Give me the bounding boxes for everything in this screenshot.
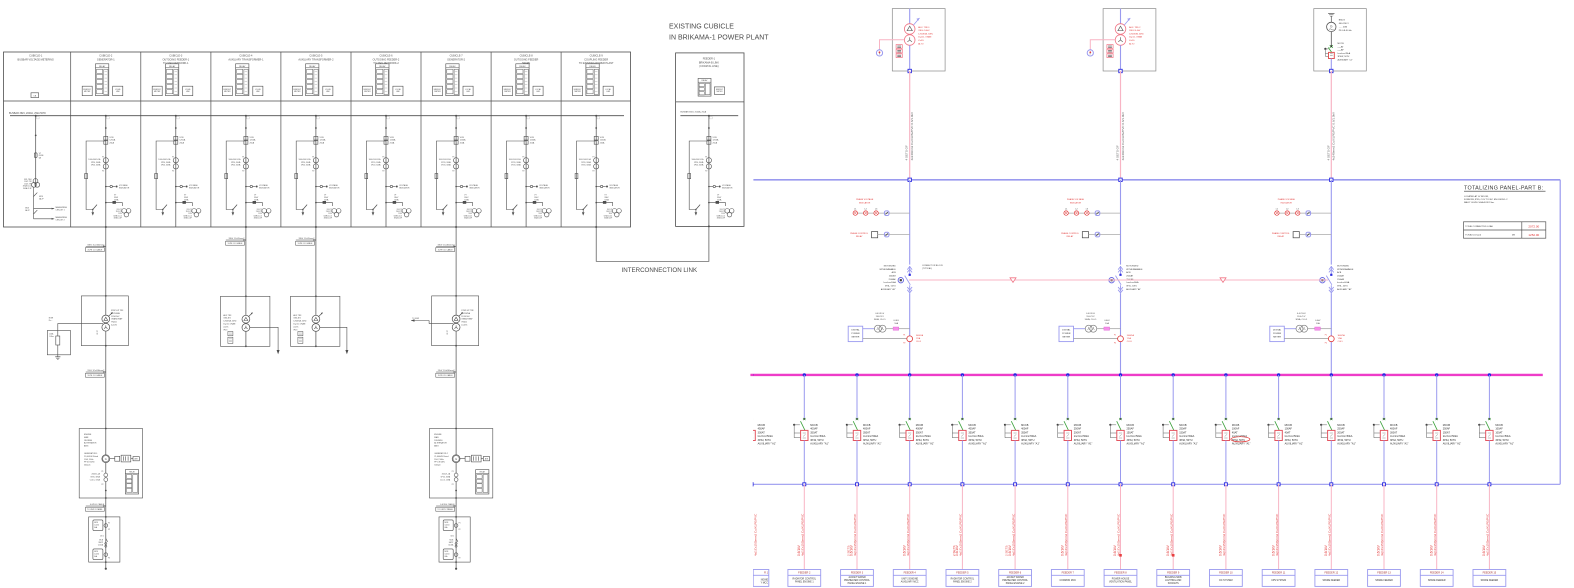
- svg-text:XLPE CU CABLE: XLPE CU CABLE: [228, 242, 244, 245]
- svg-text:1000-500/1-1A: 1000-500/1-1A: [579, 158, 592, 161]
- svg-text:3P3d, 50TU: 3P3d, 50TU: [863, 439, 877, 442]
- svg-text:11kV, 50Hz: 11kV, 50Hz: [434, 459, 444, 461]
- svg-text:TO UNIT-1 PANEL: TO UNIT-1 PANEL: [87, 508, 103, 511]
- svg-text:CIRCUIT 2: CIRCUIT 2: [56, 220, 65, 222]
- svg-text:500rpm: 500rpm: [434, 464, 441, 467]
- svg-text:500rpm: 500rpm: [84, 464, 91, 467]
- feeder outgoing cable feeder 13: [1383, 484, 1385, 569]
- node square on rail feeder 7: [1066, 483, 1069, 486]
- feeder MCCB aux contact feeder 8: [1109, 424, 1111, 426]
- svg-text:0.4/√3 kV: 0.4/√3 kV: [1086, 312, 1095, 315]
- svg-text:HMI: HMI: [116, 91, 120, 93]
- svg-text:150AT: 150AT: [1179, 431, 1187, 434]
- svg-text:VCB: VCB: [109, 137, 114, 139]
- svg-text:Z=10%: Z=10%: [111, 325, 117, 327]
- svg-text:20/1.73: 20/1.73: [186, 209, 191, 211]
- CT upper U2: [454, 524, 458, 528]
- generator box G1: [79, 429, 142, 499]
- svg-text:TOTAL Demand: TOTAL Demand: [1465, 233, 1481, 236]
- svg-text:5P20, 30VA: 5P20, 30VA: [161, 161, 171, 164]
- bus drop wire mid incomer 1: [909, 293, 911, 375]
- svg-text:4x(1Cx150)mm2 Cu/XLPE/PVC: 4x(1Cx150)mm2 Cu/XLPE/PVC: [1433, 513, 1437, 556]
- transformer wye circle AUX. TRF-2: [1115, 35, 1126, 46]
- MCB sub box upper U2: [443, 520, 453, 531]
- ACB switch blade incomer 2: [1119, 274, 1121, 276]
- svg-text:PHASE VOLTAGE: PHASE VOLTAGE: [1278, 198, 1296, 201]
- svg-text:ENGINE: ENGINE: [84, 434, 92, 436]
- svg-text:PANEL ENGINE 2: PANEL ENGINE 2: [1006, 582, 1025, 585]
- node square below BSDG: [1330, 69, 1333, 72]
- svg-text:5P20, 30VA: 5P20, 30VA: [371, 164, 381, 167]
- svg-text:4 SETS OF: 4 SETS OF: [1326, 145, 1330, 161]
- svg-text:110/1.73: 110/1.73: [326, 211, 332, 213]
- feeder MCCB aux contact feeder 4: [899, 424, 901, 426]
- transformer tap arrow: [459, 312, 463, 316]
- svg-text:PHASE CONTROL: PHASE CONTROL: [1061, 232, 1080, 235]
- cubicle divider line 6: [420, 52, 422, 227]
- svg-text:FEEDER 5: FEEDER 5: [956, 572, 969, 575]
- svg-text:PF:0.8-50 Hz: PF:0.8-50 Hz: [1339, 30, 1352, 32]
- svg-text:3P4L, 50TU: 3P4L, 50TU: [1126, 286, 1137, 288]
- bus tap label Brikama feeder: [710, 117, 713, 119]
- svg-text:POWER: POWER: [851, 333, 860, 335]
- svg-text:110/1.73: 110/1.73: [396, 211, 402, 213]
- svg-text:MCCB: MCCB: [1495, 424, 1503, 427]
- 400V main busbar: [753, 179, 1560, 181]
- standby diesel generator box BSDG: [1314, 9, 1367, 71]
- svg-text:Icu=Ics=50kA: Icu=Ics=50kA: [1443, 435, 1458, 438]
- svg-text:3P3d, 50TU: 3P3d, 50TU: [1443, 439, 1457, 442]
- energy meter box cubicle 6: [362, 86, 372, 96]
- svg-text:110/1.73: 110/1.73: [116, 211, 122, 213]
- svg-text:SPARE FEEDER: SPARE FEEDER: [1481, 579, 1499, 582]
- node square on rail feeder 15: [1488, 483, 1491, 486]
- feeder MCCB feeder 4: [908, 418, 911, 420]
- feeder MCCB red box feeder 7: [1064, 430, 1071, 440]
- svg-text:20/25MVA: 20/25MVA: [111, 312, 120, 315]
- svg-text:INDICATOR: INDICATOR: [329, 187, 340, 190]
- meter CT circle incomer 2: [1118, 336, 1124, 342]
- svg-text:ONAN/ONAF: ONAN/ONAF: [111, 318, 123, 321]
- svg-text:MEASURING: MEASURING: [56, 216, 68, 219]
- generator CT G2: [455, 463, 457, 474]
- svg-text:HMI: HMI: [186, 91, 190, 93]
- feeder outgoing cable feeder 8: [1120, 484, 1122, 569]
- local HMI box cubicle 8: [533, 86, 543, 96]
- svg-text:Z=10%: Z=10%: [461, 325, 467, 327]
- svg-text:3000/5A: 3000/5A: [916, 334, 924, 337]
- svg-text:ALTERNATOR: ALTERNATOR: [84, 442, 97, 445]
- feeder wire to bottom rail feeder 14: [1436, 441, 1438, 485]
- ACB switch blade incomer 3: [1330, 274, 1332, 276]
- ACB motor circle M incomer 1: [898, 278, 903, 283]
- svg-text:1250KVA, 50Hz: 1250KVA, 50Hz: [1129, 32, 1144, 35]
- svg-text:VCB: VCB: [390, 137, 395, 139]
- wire stub below unit box U2: [455, 562, 457, 569]
- transformer winding wye circle: [242, 324, 250, 332]
- feeder label box feeder 13: [1368, 570, 1401, 587]
- svg-text:P2: P2: [452, 171, 454, 173]
- feeder outgoing cable feeder 7: [1067, 484, 1069, 569]
- svg-text:350AT: 350AT: [1021, 431, 1029, 434]
- aux transformer accessory rects AUX TRF-1: [228, 332, 233, 336]
- svg-text:INDICATOR: INDICATOR: [609, 187, 620, 190]
- svg-text:...... kVA: ...... kVA: [1339, 26, 1348, 29]
- svg-text:METER: METER: [224, 91, 231, 93]
- svg-text:5P20, 30VA: 5P20, 30VA: [441, 164, 451, 167]
- svg-text:VENTILATION PANEL: VENTILATION PANEL: [1109, 580, 1133, 583]
- svg-text:Icu=Ics=50kA: Icu=Ics=50kA: [1127, 435, 1142, 438]
- relay panel RELAY box cubicle 4: [236, 64, 249, 96]
- svg-text:5P20, 30VA: 5P20, 30VA: [511, 164, 521, 167]
- local HMI box cubicle 2: [113, 86, 123, 96]
- feeder MCCB feeder 15: [1488, 418, 1491, 420]
- transformer tap arrow: [319, 313, 323, 317]
- feeder drop wire from magenta bus feeder 9: [1172, 373, 1175, 376]
- ACB switch blade incomer 1: [909, 274, 911, 276]
- svg-text:33/0.4kV: 33/0.4kV: [223, 318, 231, 320]
- svg-text:Icu=Ics=50kA: Icu=Ics=50kA: [1495, 435, 1510, 438]
- feeder MCCB red box feeder 2: [801, 430, 808, 440]
- svg-text:350AT: 350AT: [916, 431, 924, 434]
- svg-text:AUXILIARY "A1": AUXILIARY "A1": [863, 443, 882, 446]
- svg-text:20/1.73: 20/1.73: [607, 209, 612, 211]
- svg-text:MCCB: MCCB: [968, 424, 976, 427]
- circuit breaker VCB cubicle 5: [314, 136, 318, 140]
- svg-text:FEEDER 6: FEEDER 6: [1009, 572, 1022, 575]
- energy meter box cubicle 7: [433, 86, 443, 96]
- 400V LV distribution busbar magenta: [750, 374, 1542, 376]
- earthing switch branch cubicle 4: [226, 141, 246, 210]
- svg-text:20/25MVA: 20/25MVA: [461, 312, 470, 315]
- meter CT wire incomer 3: [1284, 338, 1328, 340]
- svg-text:SOCKETS: SOCKETS: [1168, 583, 1179, 585]
- svg-text:FEEDER-1: FEEDER-1: [703, 58, 716, 61]
- svg-text:5P20, 30VA: 5P20, 30VA: [231, 164, 241, 167]
- svg-text:AUXILIARY "A1": AUXILIARY "A1": [1390, 443, 1409, 446]
- feeder MCCB feeder 12: [1330, 418, 1333, 420]
- svg-text:FEEDER 15: FEEDER 15: [1483, 572, 1497, 575]
- local HMI box cubicle 9: [603, 86, 613, 96]
- earthing switch branch Brikama feeder: [689, 141, 709, 210]
- svg-text:INDICATOR: INDICATOR: [259, 187, 270, 190]
- svg-text:MCCB: MCCB: [916, 424, 924, 427]
- svg-text:33kV /0.4kV: 33kV /0.4kV: [1129, 30, 1141, 32]
- bus tap label cubicle 9: [597, 117, 600, 119]
- ground symbol NGR-1: [57, 355, 59, 357]
- svg-text:RELAY: RELAY: [169, 65, 176, 68]
- svg-text:250AF: 250AF: [1127, 428, 1135, 431]
- svg-text:4x(1Cx150)mm2 Cu/XLPE/PVC: 4x(1Cx150)mm2 Cu/XLPE/PVC: [1011, 513, 1015, 556]
- svg-text:R=...: R=...: [49, 320, 53, 322]
- svg-text:1250KVA, 50Hz: 1250KVA, 50Hz: [918, 32, 933, 35]
- feeder MCCB feeder 5: [961, 418, 964, 420]
- feeder MCCB red box feeder 6: [1011, 430, 1018, 440]
- cubicle divider line 3: [210, 52, 212, 227]
- svg-text:METER: METER: [434, 91, 441, 93]
- feeder MCCB aux contact feeder 11: [1267, 424, 1269, 426]
- svg-text:Icu=Ics=50kA: Icu=Ics=50kA: [968, 435, 983, 438]
- node square on rail feeder 1: [750, 483, 753, 486]
- bus drop wire mid incomer 3: [1330, 293, 1332, 375]
- transformer winding delta circle: [242, 315, 250, 323]
- svg-text:FEEDER 7: FEEDER 7: [1062, 572, 1075, 575]
- svg-text:DIGITAL: DIGITAL: [1062, 328, 1071, 331]
- svg-text:BUSBAR 36kV, 2000A, 25kA 50Hz: BUSBAR 36kV, 2000A, 25kA 50Hz: [9, 112, 47, 115]
- auxiliary transformer box AUX TRF-1: [221, 296, 270, 346]
- feeder wire to bottom rail feeder 3: [856, 441, 858, 485]
- tap changer arrow AUX. TRF-1: [913, 18, 919, 25]
- svg-text:100AT: 100AT: [1495, 431, 1503, 434]
- svg-text:G: G: [105, 457, 107, 461]
- feeder MCCB red box feeder 9: [1170, 430, 1177, 440]
- svg-text:Icu=Ics=50kA: Icu=Ics=50kA: [1126, 281, 1139, 284]
- CT upper U1: [104, 524, 108, 528]
- svg-text:110/√3 V: 110/√3 V: [876, 315, 885, 318]
- svg-text:3P3d, 50TU: 3P3d, 50TU: [1495, 439, 1509, 442]
- energy meter box cubicle 8: [503, 86, 513, 96]
- svg-text:YNd11: YNd11: [111, 322, 117, 324]
- circuit breaker VCB cubicle 2: [104, 136, 108, 140]
- svg-text:4x(1Cx150)mm2 Cu/XLPE/PVC: 4x(1Cx150)mm2 Cu/XLPE/PVC: [959, 513, 963, 556]
- svg-text:4x(1Cx150)mm2 Cu/XLPE/PVC: 4x(1Cx150)mm2 Cu/XLPE/PVC: [906, 513, 910, 556]
- svg-text:PF:0.8 50Hz: PF:0.8 50Hz: [434, 462, 445, 464]
- svg-text:AUXILIARY "a1": AUXILIARY "a1": [1338, 59, 1353, 62]
- svg-text:PANEL ENGINE 2: PANEL ENGINE 2: [953, 580, 972, 583]
- svg-text:2000/1-1A: 2000/1-1A: [442, 473, 451, 476]
- svg-text:P1: P1: [101, 471, 103, 473]
- LV wire inside box AUX. TRF-2: [1120, 45, 1122, 71]
- generator circle BSDG: [1327, 22, 1336, 31]
- transformer tap arrow: [108, 312, 112, 316]
- svg-text:OUTGOING FEEDER: OUTGOING FEEDER: [514, 58, 539, 61]
- meter VT circles incomer 1: [863, 328, 875, 330]
- svg-text:METER: METER: [574, 91, 581, 93]
- svg-text:Icu=Ics=50kA: Icu=Ics=50kA: [1337, 435, 1352, 438]
- neutral CT circle AUX. TRF-1: [876, 50, 882, 56]
- svg-text:TOTAL CONNECTED LOAD: TOTAL CONNECTED LOAD: [1465, 225, 1493, 228]
- svg-text:FEEDER 12: FEEDER 12: [1324, 572, 1338, 575]
- svg-text:Icu=Ics=50kA: Icu=Ics=50kA: [1179, 435, 1194, 438]
- svg-text:3P4L, 50TU: 3P4L, 50TU: [1337, 286, 1348, 288]
- svg-text:MEASURING: MEASURING: [56, 206, 68, 209]
- svg-text:RELAY: RELAY: [99, 65, 106, 68]
- digital power meter box incomer 3: [1270, 326, 1285, 341]
- svg-text:AUXILIARY "A1": AUXILIARY "A1": [1337, 288, 1352, 291]
- feeder wire to bottom rail feeder 5: [961, 441, 963, 485]
- feeder bay vertical wire Brikama feeder: [708, 116, 710, 227]
- svg-text:INDICATOR: INDICATOR: [722, 187, 733, 190]
- BSDG breaker aux contact: [1324, 48, 1326, 50]
- svg-text:350AT: 350AT: [810, 431, 818, 434]
- cubicle divider line 8: [560, 52, 562, 227]
- svg-text:MCCB: MCCB: [1285, 424, 1293, 427]
- svg-text:25kA: 25kA: [320, 141, 325, 144]
- svg-text:110/1.73: 110/1.73: [606, 211, 612, 213]
- svg-text:MCCB: MCCB: [1179, 424, 1187, 427]
- svg-text:XLPE CU CABLE: XLPE CU CABLE: [438, 249, 454, 252]
- svg-text:11kV 1Cx630mm2: 11kV 1Cx630mm2: [438, 370, 456, 372]
- feeder MCCB feeder 7: [1067, 418, 1070, 420]
- svg-text:VOLTAGE: VOLTAGE: [329, 184, 338, 187]
- svg-text:5P20, 30VA: 5P20, 30VA: [371, 161, 381, 164]
- wire step-up trf to generator 1: [105, 346, 107, 429]
- feeder drop wire from magenta bus feeder 6: [1013, 373, 1016, 376]
- svg-text:4x(1Cx150)mm2 Cu/XLPE/PVC: 4x(1Cx150)mm2 Cu/XLPE/PVC: [1064, 513, 1068, 556]
- svg-text:CL0.5, 15VA: CL0.5, 15VA: [440, 478, 451, 481]
- svg-text:MCCB: MCCB: [1232, 424, 1240, 427]
- svg-text:METER: METER: [504, 91, 511, 93]
- svg-text:18V48/60: 18V48/60: [434, 440, 442, 442]
- svg-text:INDICATOR: INDICATOR: [859, 201, 871, 204]
- svg-text:PANEL ENGINE 1: PANEL ENGINE 1: [848, 582, 867, 585]
- feeder MCCB aux contact feeder 12: [1320, 424, 1322, 426]
- feeder wire to bottom rail feeder 9: [1172, 441, 1174, 485]
- svg-text:PANEL ENGINE 1: PANEL ENGINE 1: [795, 580, 814, 583]
- feeder bay vertical wire cubicle 7: [455, 116, 457, 227]
- svg-text:IP23: IP23: [293, 329, 297, 331]
- node square on rail feeder 6: [1014, 483, 1017, 486]
- svg-text:VCB: VCB: [530, 137, 535, 139]
- svg-text:BSDG: BSDG: [1339, 19, 1345, 21]
- meter VT circles incomer 2: [1074, 328, 1086, 330]
- neutral grounding resistor box NGR-1: [47, 331, 70, 355]
- local HMI box cubicle 6: [393, 86, 403, 96]
- meter CT wire incomer 1: [863, 338, 907, 340]
- svg-text:20/1.73: 20/1.73: [537, 209, 542, 211]
- feeder MCCB feeder 13: [1383, 418, 1386, 420]
- svg-text:CUBICLE-8: CUBICLE-8: [520, 55, 534, 58]
- feeder wire to bottom rail feeder 12: [1330, 441, 1332, 485]
- svg-text:CL0.5: CL0.5: [1127, 341, 1132, 343]
- BSDG wire to breaker: [1330, 32, 1332, 46]
- svg-text:RELAY: RELAY: [379, 65, 386, 68]
- svg-text:0.6/1kV CABLE: 0.6/1kV CABLE: [90, 503, 105, 506]
- feeder drop wire from magenta bus feeder 8: [1119, 373, 1122, 376]
- feeder drop wire from magenta bus feeder 10: [1224, 373, 1227, 376]
- svg-text:TO UNIT-2 PANEL: TO UNIT-2 PANEL: [437, 508, 453, 511]
- feeder outgoing cable feeder 3: [856, 484, 858, 569]
- feeder label box feeder 6: [999, 570, 1032, 587]
- svg-text:CUBICLE-1: CUBICLE-1: [29, 55, 43, 58]
- svg-text:P2: P2: [102, 171, 104, 173]
- svg-text:40AT: 40AT: [1232, 431, 1238, 434]
- feeder MCCB red box feeder 4: [906, 430, 913, 440]
- svg-text:XLPE CU CABLE: XLPE CU CABLE: [298, 242, 314, 245]
- svg-text:11/34.5kV: 11/34.5kV: [111, 316, 120, 318]
- svg-text:VOLTAGE: VOLTAGE: [722, 184, 731, 187]
- fuse symbol F2 incomer 2: [1095, 232, 1100, 237]
- svg-text:5P20, 30VA: 5P20, 30VA: [91, 161, 101, 164]
- svg-text:AUXILIARY "A1": AUXILIARY "A1": [1285, 443, 1304, 446]
- wire generator 1 to unit box: [105, 498, 107, 517]
- neutral elbow wire AUX. TRF-1: [880, 40, 905, 50]
- junction dot cubicle 8: [525, 127, 527, 129]
- svg-text:VCB: VCB: [713, 137, 718, 139]
- aux transformer accessory rects AUX TRF-2: [298, 332, 303, 336]
- svg-text:AUX TRF: AUX TRF: [293, 314, 302, 317]
- transformer winding wye circle: [312, 324, 320, 332]
- neutral CT circle AUX. TRF-2: [1087, 50, 1093, 56]
- svg-text:5P20, 30VA: 5P20, 30VA: [161, 164, 171, 167]
- svg-text:DC SYSTEM: DC SYSTEM: [1219, 580, 1232, 582]
- svg-text:1250A: 1250A: [320, 139, 326, 142]
- feeder MCCB aux contact feeder 13: [1373, 424, 1375, 426]
- svg-text:11kV, 50Hz: 11kV, 50Hz: [84, 459, 94, 461]
- node square on rail feeder 3: [856, 483, 859, 486]
- feeder MCCB red box feeder 13: [1380, 430, 1387, 440]
- node square on rail feeder 13: [1383, 483, 1386, 486]
- svg-text:5P20, 30VA: 5P20, 30VA: [694, 161, 704, 164]
- svg-text:LOCATED AT LV ROOM,: LOCATED AT LV ROOM,: [1464, 195, 1489, 198]
- svg-text:3P3d, 50TU: 3P3d, 50TU: [1390, 439, 1404, 442]
- junction dot cubicle 4: [245, 127, 247, 129]
- svg-text:INDICATOR: INDICATOR: [469, 187, 480, 190]
- svg-text:Icu=Ics=50kA: Icu=Ics=50kA: [1074, 435, 1089, 438]
- clipped group for feeder 1: [740, 373, 776, 586]
- voltage indicator cubicle 4: [246, 186, 250, 188]
- svg-text:18V48/60: 18V48/60: [84, 440, 92, 442]
- fuse symbol F2 incomer 3: [1306, 232, 1311, 237]
- svg-text:3000/5A: 3000/5A: [1338, 334, 1346, 337]
- cubicle 4 drop wire: [245, 227, 247, 296]
- earthing switch branch cubicle 7: [436, 141, 456, 210]
- svg-text:INDICATOR: INDICATOR: [399, 187, 410, 190]
- svg-text:Icu=Ics=50kA: Icu=Ics=50kA: [758, 435, 773, 438]
- feeder outgoing cable feeder 10: [1225, 484, 1227, 569]
- svg-text:300AT: 300AT: [1390, 431, 1398, 434]
- svg-text:P2: P2: [459, 557, 461, 559]
- svg-text:CUBICLE-7: CUBICLE-7: [450, 55, 464, 58]
- circuit breaker VCB cubicle 6: [384, 136, 388, 140]
- svg-text:INTERCONNECTION LINK: INTERCONNECTION LINK: [622, 267, 699, 274]
- svg-text:4x(1Cx150)mm2 Cu/XLPE/PVC: 4x(1Cx150)mm2 Cu/XLPE/PVC: [801, 513, 805, 556]
- feeder drop wire from magenta bus feeder 11: [1277, 373, 1280, 376]
- LV side wire to ground AUX TRF-2: [320, 327, 347, 350]
- voltage indicator cubicle 8: [526, 186, 530, 188]
- svg-text:G: G: [455, 457, 457, 461]
- Brikama relay box: [698, 78, 711, 96]
- svg-text:XLPE CU CABLE: XLPE CU CABLE: [87, 374, 103, 377]
- svg-text:P1: P1: [108, 522, 110, 524]
- node square on rail feeder 9: [1172, 483, 1175, 486]
- voltage indicator cubicle 9: [596, 186, 600, 188]
- bus drop wire upper incomer 2: [1120, 180, 1122, 265]
- svg-text:MCCB: MCCB: [1443, 424, 1451, 427]
- svg-text:METER: METER: [717, 91, 724, 93]
- circuit breaker VCB cubicle 7: [454, 136, 458, 140]
- feeder outgoing cable feeder 11: [1278, 484, 1280, 569]
- feeder wire to bottom rail feeder 10: [1225, 441, 1227, 485]
- energy meter box cubicle 2: [82, 86, 92, 96]
- svg-text:P2: P2: [903, 343, 905, 345]
- svg-text:33kV 1Cx95mm2: 33kV 1Cx95mm2: [298, 238, 315, 240]
- svg-text:TO NGR: TO NGR: [412, 318, 420, 320]
- bus drop wire mid incomer 2: [1120, 293, 1122, 375]
- feeder wire to bottom rail feeder 2: [803, 441, 805, 485]
- digital power meter box incomer 2: [1059, 326, 1074, 341]
- svg-text:Icu=Ics=50kA: Icu=Ics=50kA: [884, 281, 897, 284]
- svg-text:VCB: VCB: [600, 137, 605, 139]
- header divider line: [4, 100, 631, 102]
- feeder wire to bottom rail feeder 11: [1278, 441, 1280, 485]
- svg-text:UNIT-2 ENGINE: UNIT-2 ENGINE: [901, 578, 918, 580]
- svg-text:4x240mm2 Cu/XLPE/PVC 0.6/1.0: 4x240mm2 Cu/XLPE/PVC 0.6/1.0kV: [1121, 112, 1125, 161]
- feeder wire to bottom rail feeder 6: [1014, 441, 1016, 485]
- svg-text:4x(1Cx150)mm2 Cu/XLPE/PVC: 4x(1Cx150)mm2 Cu/XLPE/PVC: [1275, 513, 1279, 556]
- Brikama cubicle outer box: [676, 53, 744, 227]
- bus tap label cubicle 2: [107, 117, 110, 119]
